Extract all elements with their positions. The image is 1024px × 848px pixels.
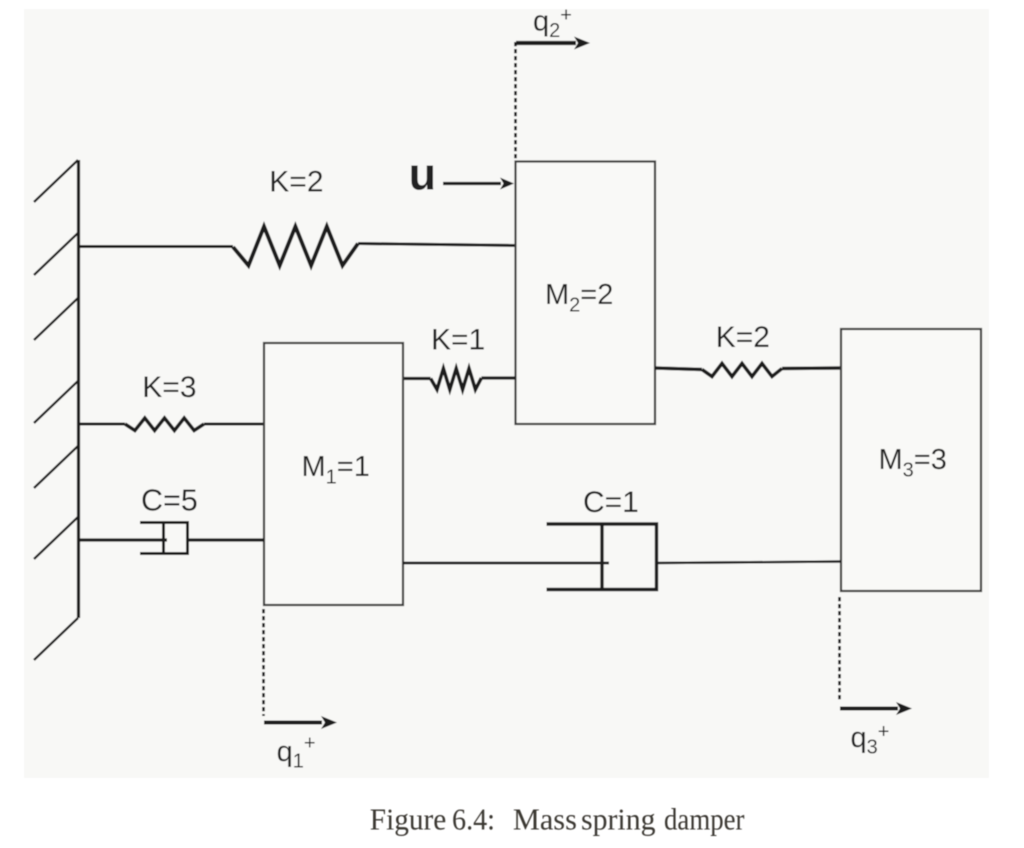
wire spring K2 top to M2: [358, 244, 516, 246]
spring K=3 (wall to M1): [125, 418, 204, 431]
spring K=2 (right, M2 to M3): [702, 364, 782, 377]
damper C=5 cylinder: [140, 523, 188, 554]
damper C=5 piston: [162, 523, 165, 554]
arrow q3: [840, 707, 898, 711]
mass M3 box: [841, 329, 981, 591]
spring K=1 (M1 to M2): [431, 369, 482, 390]
mass M2 box: [516, 162, 656, 425]
node q2 dashed reference line: [514, 42, 517, 160]
arrow q2: [516, 41, 576, 45]
wall hatch 5: [34, 446, 78, 488]
wall: [77, 160, 80, 618]
wire spring K1 to M2: [481, 376, 515, 379]
wire damper C1 to M3: [657, 562, 842, 564]
wire M1 to spring K1: [403, 377, 431, 380]
damper C=1 piston: [600, 524, 603, 590]
arrow q1: [264, 721, 322, 725]
svg-text:K=3: K=3: [142, 371, 196, 404]
node q3 dashed reference line: [838, 597, 841, 702]
svg-text:K=2: K=2: [716, 321, 770, 354]
wall hatch 3: [34, 298, 78, 340]
wall hatch 2: [34, 233, 78, 275]
spring K=2 (top, wall to M2): [233, 227, 358, 266]
wall hatch 7: [34, 618, 78, 660]
wire wall to spring K2 top: [78, 245, 233, 248]
svg-text:Figure6.4:Massspringdamper: Figure6.4:Massspringdamper: [370, 802, 745, 837]
wire spring K2 right to M3: [782, 366, 841, 370]
wire damper C5 to M1: [188, 538, 265, 541]
svg-text:K=2: K=2: [269, 166, 323, 199]
wall hatch 4: [34, 381, 78, 423]
svg-text:C=5: C=5: [141, 484, 198, 518]
node q1 dashed reference line: [262, 609, 265, 716]
wire M2 to spring K2 right: [655, 368, 702, 370]
svg-text:C=1: C=1: [583, 486, 639, 519]
wall hatch 1: [34, 160, 78, 202]
damper C=5 rod from wall: [78, 538, 167, 541]
damper C=1 rod from M1: [403, 562, 609, 565]
wire wall to spring K3: [78, 423, 125, 426]
wire spring K3 to M1: [204, 423, 264, 426]
svg-text:K=1: K=1: [431, 324, 485, 357]
mass M1 box: [264, 343, 403, 605]
svg-text:u: u: [409, 149, 437, 200]
damper C=1 cylinder: [547, 524, 657, 590]
arrow u: [443, 182, 501, 185]
wall hatch 6: [34, 517, 78, 559]
